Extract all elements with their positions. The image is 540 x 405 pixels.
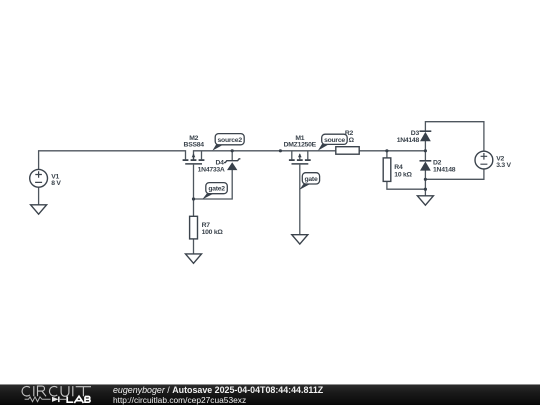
ground (R7) [186, 254, 202, 263]
wire: R4 top stub [386, 151, 388, 158]
wire: M2 source stub [201, 151, 203, 160]
node: R4 bottom/ground [424, 188, 427, 191]
footer bar [0, 384, 540, 385]
wire: R2 right to D2/D3 node [359, 150, 425, 152]
net flag gate2 [202, 183, 227, 200]
CircuitLab logo "CIRCUIT" [22, 386, 91, 396]
svg-text:gate2: gate2 [208, 186, 225, 193]
svg-text:R2: R2 [345, 130, 354, 137]
svg-text:1N4148: 1N4148 [433, 166, 456, 173]
CircuitLab logo "LAB" [67, 396, 90, 403]
net flag gate [299, 173, 319, 190]
ground (D2) [417, 196, 433, 205]
wire: M1 gate down to ground [299, 165, 301, 235]
transistor M2 (BSS84) [183, 153, 205, 164]
resistor R4 [383, 158, 391, 182]
svg-text:R4: R4 [394, 164, 403, 171]
node: D2 D3 rail [424, 149, 427, 152]
voltage source V1 [30, 169, 48, 187]
diode D2 (1N4148) [420, 161, 432, 171]
resistor R7 [190, 216, 198, 239]
wire: V1 top to M2 drain rail [39, 151, 186, 170]
svg-text:gate: gate [305, 176, 318, 183]
wire: D3 bottom to rail node [424, 141, 426, 160]
net flag source [318, 134, 347, 150]
wire: M1 source stub [307, 151, 309, 160]
svg-text:DMZ1250E: DMZ1250E [284, 142, 317, 149]
wire: top net D3 to V2 [425, 122, 484, 152]
component labels [51, 130, 511, 236]
wire: D4 top to rail [231, 151, 233, 160]
node: M2 gate/R7/D4 [192, 197, 195, 200]
wire: D2 bottom to ground [424, 170, 426, 196]
zener diode D4 (1N4733A) [224, 159, 240, 170]
wire: gate2 node to D4 bottom [194, 170, 233, 199]
svg-text:source2: source2 [218, 137, 243, 144]
resistor R2 [336, 147, 359, 155]
svg-text:1N4733A: 1N4733A [198, 166, 225, 173]
wire: R4 bottom to ground node [387, 181, 426, 189]
wire: M1 drain stub [291, 151, 293, 160]
wire: M2 body/source rail to R2 left [194, 151, 336, 160]
logo resistor-diode doodle [25, 397, 51, 402]
wire: R7 bottom to ground [193, 239, 195, 254]
svg-text:100 kΩ: 100 kΩ [202, 229, 224, 236]
voltage source V2 [475, 151, 493, 169]
node: wire joint on rail [279, 149, 282, 152]
net flag source2 [212, 134, 244, 151]
node: D4/rail [231, 149, 234, 152]
svg-text:10 kΩ: 10 kΩ [394, 171, 412, 178]
junction dots [192, 149, 427, 200]
transistor M1 (DMZ1250E) [289, 153, 311, 164]
ground (V1) [31, 205, 47, 214]
wire: M2 gate down to R7 [193, 165, 195, 217]
svg-text:1N4148: 1N4148 [397, 137, 420, 144]
node: R4/rail [385, 149, 388, 152]
ground (M1 gate) [292, 235, 308, 244]
svg-text:8 V: 8 V [51, 180, 61, 187]
svg-text:D4: D4 [215, 159, 224, 166]
diode D3 (1N4148) [420, 131, 432, 141]
svg-text:D3: D3 [411, 130, 420, 137]
svg-text:source: source [324, 137, 345, 144]
svg-text:3.3 V: 3.3 V [496, 162, 511, 169]
wire: V2 bottom to D2 node [425, 169, 484, 179]
wire: V1 bottom to ground [38, 187, 40, 205]
node: D2/V2 bottom [424, 178, 427, 181]
svg-text:BSS84: BSS84 [184, 142, 205, 149]
